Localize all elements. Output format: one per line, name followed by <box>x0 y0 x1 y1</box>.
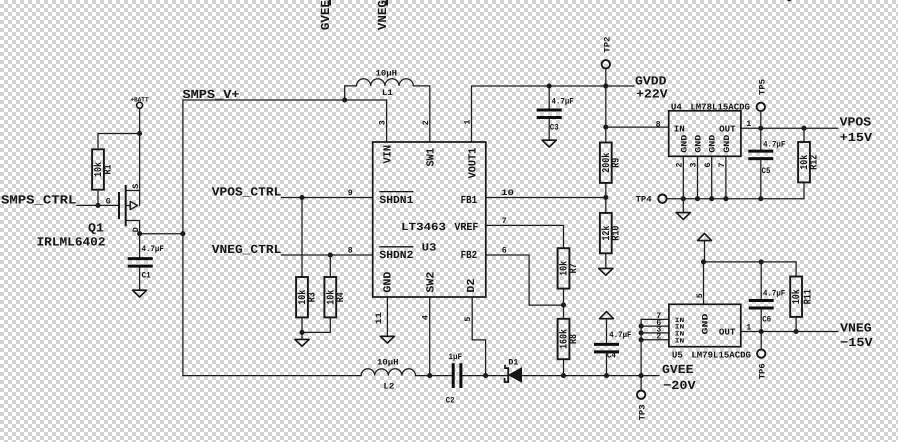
svg-text:7: 7 <box>718 163 727 168</box>
wire U5 input pin 6 <box>641 325 669 327</box>
wire SW2 pin 4 stub <box>429 297 431 376</box>
regulator U4 body <box>669 111 741 157</box>
svg-text:10µH: 10µH <box>376 69 398 78</box>
junction C4 on GVEE rail <box>604 373 609 378</box>
junction C6 bottom <box>759 329 764 334</box>
resistor R9 <box>600 143 612 183</box>
svg-text:1: 1 <box>746 324 751 333</box>
wire R7 bottom lead <box>563 289 565 319</box>
test point TP4 <box>636 195 667 205</box>
resistor R3 <box>296 277 308 317</box>
svg-text:U5: U5 <box>672 351 683 361</box>
svg-text:3: 3 <box>690 163 699 168</box>
ground below R10 <box>599 268 613 275</box>
junction U4 pin7 <box>723 196 728 201</box>
svg-text:LT3463: LT3463 <box>401 222 446 234</box>
resistor R11 <box>790 277 802 317</box>
svg-text:3: 3 <box>379 120 388 125</box>
svg-text:TP2: TP2 <box>603 37 612 53</box>
junction L1 left <box>342 97 347 102</box>
svg-text:C5: C5 <box>762 167 771 176</box>
junction U4 pin2 <box>681 196 686 201</box>
wire R10 bottom lead <box>605 253 607 268</box>
junction SW2 / L2 / C2 <box>427 373 432 378</box>
svg-text:1: 1 <box>746 120 751 129</box>
wire U5 GND pin 5 stub <box>703 262 705 304</box>
wire D2 pin 5 to rail <box>472 297 485 376</box>
svg-text:Q1: Q1 <box>88 222 104 236</box>
junction TP3 on GVEE rail <box>639 373 644 378</box>
capacitor C2 <box>453 363 485 388</box>
wire L2 to C2 <box>416 375 452 377</box>
wire U4 GND pin 3 <box>697 156 699 198</box>
svg-text:2: 2 <box>422 120 431 125</box>
junction FB1/R9/R10 <box>603 195 608 200</box>
svg-text:R10: R10 <box>610 226 622 241</box>
junction Q1 drain <box>137 231 142 236</box>
wire R11 bottom lead <box>795 317 797 332</box>
svg-text:8: 8 <box>348 246 353 255</box>
test point TP5 <box>757 79 768 128</box>
wire TP2 junction down to R9 <box>605 86 607 143</box>
ground below pin 11 <box>380 336 394 343</box>
svg-text:FB1: FB1 <box>461 195 478 207</box>
svg-text:4.7µF: 4.7µF <box>609 331 631 340</box>
transistor Q1 <box>106 184 141 234</box>
junction C3 <box>547 83 552 88</box>
svg-text:C2: C2 <box>446 396 455 405</box>
svg-text:SHDN2: SHDN2 <box>379 250 413 262</box>
junction clipped at top edge <box>787 0 792 1</box>
resistor R7 <box>558 248 570 288</box>
svg-text:TP3: TP3 <box>639 404 648 420</box>
junction U5 pin5 <box>701 259 706 264</box>
capacitor C5 <box>748 128 773 199</box>
svg-text:S: S <box>132 184 141 189</box>
junction +BATT / R1 <box>137 131 142 136</box>
wire U5 input pin 3 <box>641 332 669 334</box>
svg-text:TP4: TP4 <box>636 196 652 205</box>
junction R4 top <box>328 252 333 257</box>
wire R9 bottom to FB1 junction <box>605 183 607 213</box>
wire VOUT1 pin 1 to GVDD <box>472 86 635 142</box>
svg-text:VIN: VIN <box>382 145 394 164</box>
svg-text:C3: C3 <box>550 124 559 133</box>
svg-text:R3: R3 <box>307 292 319 302</box>
junction TP2/R9 <box>603 83 608 88</box>
wire U5 top bus <box>704 261 797 263</box>
svg-text:R11: R11 <box>803 289 815 304</box>
capacitor C3 <box>537 86 562 140</box>
svg-text:VNEG: VNEG <box>840 322 872 336</box>
wire Q1 drain to SMPS_V+ rail <box>140 233 183 235</box>
wire U4 GND pin 7 <box>725 156 727 198</box>
svg-text:GND: GND <box>695 135 704 153</box>
svg-text:GND: GND <box>723 135 732 153</box>
resistor R4 <box>324 277 336 317</box>
svg-text:SW1: SW1 <box>426 148 438 167</box>
svg-text:TP5: TP5 <box>758 79 767 95</box>
test point TP3 <box>637 376 648 421</box>
wire FB2 pin 6 <box>486 255 564 305</box>
wire bottom rail left <box>183 375 361 377</box>
svg-text:+22V: +22V <box>636 88 668 102</box>
wire U4 OUT pin 1 to VPOS <box>741 127 838 129</box>
svg-text:VREF: VREF <box>454 222 478 234</box>
svg-text:1µF: 1µF <box>449 353 463 362</box>
wire U5 input pin 2 <box>641 339 669 341</box>
svg-text:VNEG_CTRL: VNEG_CTRL <box>212 243 281 257</box>
power symbol arrow above C4 <box>600 312 614 344</box>
junction C5 on TP4 bus <box>758 196 763 201</box>
svg-text:G: G <box>106 198 111 207</box>
test point TP2 <box>602 37 613 86</box>
svg-text:9: 9 <box>348 189 353 198</box>
diode D1 (Schottky) <box>505 365 522 382</box>
svg-text:U4: U4 <box>671 102 683 112</box>
svg-text:U3: U3 <box>422 243 437 255</box>
junction R7/R8/FB2 <box>561 303 566 308</box>
svg-text:1: 1 <box>464 120 473 125</box>
capacitor C4 <box>594 344 619 375</box>
svg-text:IN: IN <box>675 337 685 344</box>
junction U5 pin3 <box>639 330 644 335</box>
wire R1 top lead <box>98 134 140 148</box>
wire R1 bottom lead <box>97 191 99 205</box>
wire U4 GND pin 2 <box>682 156 684 198</box>
svg-text:5: 5 <box>464 317 473 322</box>
svg-text:R12: R12 <box>809 155 821 170</box>
wire SMPS_V+ rail top <box>183 99 387 101</box>
junction C2 / D1 node <box>483 373 488 378</box>
wire +BATT to Q1 source <box>139 108 141 190</box>
wire R11 top lead <box>795 262 797 277</box>
junction U5 pin2 <box>639 337 644 342</box>
junction R8 on GVEE rail <box>561 373 566 378</box>
wire VREF pin 7 to R7 <box>486 225 564 248</box>
op-amp U3 body (LT3463) <box>373 142 486 297</box>
wire TP4 ground bus <box>667 198 804 200</box>
capacitor C1 <box>128 234 153 291</box>
svg-text:L2: L2 <box>383 382 394 391</box>
node GVEE_ floating label top <box>319 0 333 30</box>
svg-text:R7: R7 <box>568 263 580 273</box>
junction pin8 wire on R9 stem <box>603 125 608 130</box>
svg-text:SHDN1: SHDN1 <box>379 195 413 207</box>
svg-text:2: 2 <box>675 163 684 168</box>
wire R4 bottom to R3 bottom <box>302 317 330 332</box>
junction R12 top <box>801 126 806 131</box>
svg-text:+BATT: +BATT <box>130 96 148 103</box>
svg-text:OUT: OUT <box>719 328 736 338</box>
svg-text:4.7µF: 4.7µF <box>552 97 574 106</box>
svg-text:VOUT1: VOUT1 <box>468 147 480 178</box>
wire SMPS_CTRL to Q1 gate <box>77 204 119 206</box>
power symbol arrow above U5 <box>698 233 712 262</box>
wire R12 bottom lead <box>803 182 805 198</box>
svg-text:6: 6 <box>704 163 713 168</box>
wire pin3 VIN stub <box>386 100 388 142</box>
svg-text:4: 4 <box>422 315 431 320</box>
junction R11 bottom <box>794 329 799 334</box>
svg-text:2: 2 <box>656 333 661 342</box>
svg-text:R9: R9 <box>610 158 622 168</box>
svg-text:GND: GND <box>701 313 710 334</box>
svg-text:C4: C4 <box>607 352 616 361</box>
svg-text:C1: C1 <box>142 272 151 281</box>
svg-text:R1: R1 <box>103 165 115 175</box>
svg-text:GVDD: GVDD <box>635 74 667 88</box>
junction U4 pin3 <box>695 196 700 201</box>
resistor R8 <box>558 319 570 359</box>
ground below C1 <box>133 290 147 297</box>
svg-text:LM78L15ACDG: LM78L15ACDG <box>690 102 750 112</box>
test point TP6 <box>757 332 768 380</box>
junction U5 pin6 <box>639 324 644 329</box>
node VNEG_ floating label top <box>376 0 390 30</box>
ground below C3 <box>542 140 556 147</box>
junction on left vertical <box>180 231 185 236</box>
svg-text:GND: GND <box>680 135 689 153</box>
svg-text:VPOS_CTRL: VPOS_CTRL <box>212 186 281 200</box>
svg-text:R4: R4 <box>335 292 347 302</box>
wire D1 anode to GVEE rail <box>522 375 660 377</box>
svg-text:10µH: 10µH <box>377 358 399 367</box>
svg-text:GND: GND <box>709 135 718 153</box>
svg-text:FB2: FB2 <box>461 250 478 262</box>
svg-text:D2: D2 <box>466 279 478 293</box>
svg-text:8: 8 <box>656 120 661 129</box>
resistor R12 <box>798 142 810 182</box>
power symbol +BATT <box>130 96 148 108</box>
wire R3 top lead <box>301 198 303 277</box>
wire R3 bottom lead <box>301 317 303 332</box>
svg-text:7: 7 <box>502 217 507 226</box>
capacitor C6 <box>749 262 774 332</box>
wire VNEG_CTRL to SHDN2 pin 8 <box>282 254 373 256</box>
wire left vertical SMPS_V+ <box>182 100 184 376</box>
svg-text:C6: C6 <box>762 316 771 325</box>
junction U4 pin6 <box>709 196 714 201</box>
svg-text:SMPS_CTRL: SMPS_CTRL <box>1 194 76 208</box>
wire R4 top lead <box>329 255 331 276</box>
svg-text:4.7µF: 4.7µF <box>763 290 785 299</box>
svg-text:SW2: SW2 <box>426 272 438 293</box>
svg-text:LM79L15ACDG: LM79L15ACDG <box>691 351 751 361</box>
resistor R10 <box>600 213 612 253</box>
wire to D1 cathode <box>486 375 509 377</box>
resistor R1 <box>92 149 104 189</box>
svg-text:−20V: −20V <box>663 379 696 393</box>
svg-text:D1: D1 <box>508 358 518 367</box>
svg-text:4.7µF: 4.7µF <box>142 245 164 254</box>
junction R3/R4 ground node <box>299 330 304 335</box>
svg-text:GND: GND <box>382 271 394 292</box>
svg-text:TP6: TP6 <box>759 363 768 379</box>
wire GND pin 11 stub <box>386 297 388 336</box>
wire R12 top lead <box>803 128 805 142</box>
regulator U5 body <box>669 304 741 346</box>
wire U4 pin 8 input <box>606 126 669 128</box>
wire U5 input pin 7 <box>641 319 669 375</box>
svg-text:L1: L1 <box>382 89 393 98</box>
svg-text:VPOS: VPOS <box>840 116 872 130</box>
svg-text:IRLML6402: IRLML6402 <box>37 236 106 250</box>
svg-text:10k: 10k <box>791 289 803 304</box>
svg-text:11: 11 <box>375 312 384 325</box>
svg-text:4.7µF: 4.7µF <box>763 140 785 149</box>
junction TP5/C5 <box>758 126 763 131</box>
svg-text:5: 5 <box>696 293 705 298</box>
junction C6 top <box>759 259 764 264</box>
inductor L1 <box>345 79 430 142</box>
wire ground stub <box>301 332 303 339</box>
wire U5 OUT pin 1 to VNEG <box>741 331 838 333</box>
svg-text:+15V: +15V <box>840 131 873 145</box>
wire R8 bottom lead <box>563 359 565 375</box>
junction R1 bottom <box>95 203 100 208</box>
wire VPOS_CTRL to SHDN1 pin 9 <box>282 197 373 199</box>
inductor L2 <box>361 369 415 376</box>
svg-text:6: 6 <box>502 246 507 255</box>
svg-text:−15V: −15V <box>840 336 873 350</box>
wire U4 GND pin 6 <box>711 156 713 198</box>
junction R3 top <box>299 195 304 200</box>
svg-text:IN: IN <box>674 124 685 134</box>
ground below R3 R4 <box>295 339 309 346</box>
svg-text:10: 10 <box>501 189 514 198</box>
svg-text:R8: R8 <box>568 334 580 344</box>
svg-text:GVEE: GVEE <box>662 363 694 377</box>
ground below TP4 bus <box>676 199 690 220</box>
svg-text:OUT: OUT <box>719 124 736 134</box>
wire FB1 pin 10 <box>486 197 606 199</box>
